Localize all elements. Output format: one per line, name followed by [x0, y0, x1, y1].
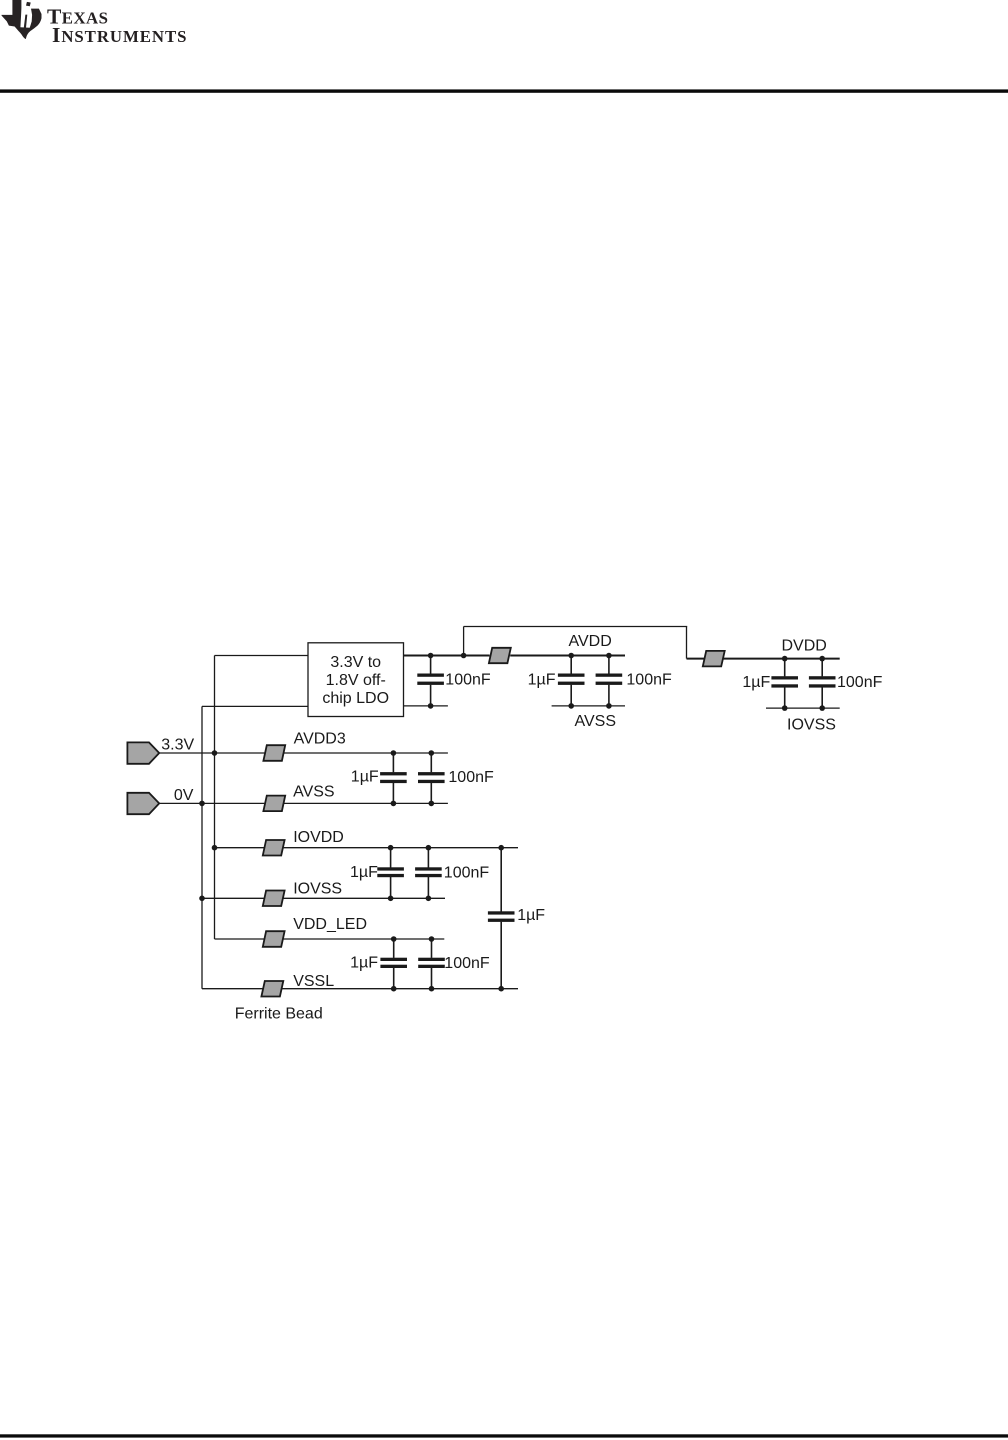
junction C1 top [428, 653, 434, 659]
capacitor C11 100nF on VDD_LED [418, 939, 445, 989]
ferrite bead FB3 AVDD3 [263, 745, 285, 761]
junction bypass tap [461, 653, 467, 659]
svg-text:VDD_LED: VDD_LED [293, 916, 367, 933]
wire FB1 to AVDD net [510, 655, 625, 657]
wire VSSL net [202, 988, 518, 990]
capacitor C3 100nF on AVDD [596, 656, 623, 706]
capacitor C6 1uF on AVDD3 [380, 753, 407, 803]
wire LDO input 3.3V [215, 655, 309, 657]
capacitor C7 100nF on AVDD3 [418, 753, 445, 803]
svg-text:100nF: 100nF [445, 671, 491, 688]
svg-text:IOVSS: IOVSS [293, 881, 342, 898]
junction C8 bottom [388, 896, 394, 902]
svg-text:Ferrite Bead: Ferrite Bead [235, 1006, 323, 1023]
wire IOVSS net [202, 897, 445, 899]
wire IOVSS return under DVDD caps [766, 707, 840, 709]
ferrite bead FB5 IOVDD [263, 840, 285, 856]
supply terminal 0V input [127, 793, 159, 814]
wire AVDD bypass top run [464, 626, 688, 628]
junction C2 top [568, 653, 574, 659]
junction C3 bottom [606, 703, 612, 709]
wire 0V row / AVSS net [159, 802, 448, 804]
junction C4 top [782, 656, 788, 662]
junction C12 bottom [498, 986, 504, 992]
ferrite bead FB2 DVDD [703, 651, 725, 667]
junction C12 top [498, 845, 504, 851]
ferrite bead FB4 AVSS [263, 796, 285, 812]
junction C6 top [391, 750, 397, 756]
ferrite bead FB7 VDD_LED [263, 931, 285, 947]
svg-text:100nF: 100nF [444, 865, 490, 882]
svg-text:DVDD: DVDD [782, 637, 827, 654]
capacitor C10 1uF on VDD_LED [380, 939, 407, 989]
junction IOVDD rail tap [212, 845, 218, 851]
footer rule [0, 1434, 1008, 1437]
svg-text:AVDD3: AVDD3 [294, 731, 346, 748]
svg-text:IOVSS: IOVSS [787, 716, 836, 733]
junction C5 bottom [819, 705, 825, 711]
svg-text:100nF: 100nF [448, 769, 494, 786]
junction 3.3V rail tap [212, 750, 218, 756]
junction C5 top [819, 656, 825, 662]
svg-text:3.3V: 3.3V [161, 736, 194, 753]
junction 0V rail tap [199, 801, 205, 807]
capacitor C9 100nF on IOVDD [415, 848, 442, 899]
wire bypass dropper to DVDD [686, 627, 688, 659]
junction C4 bottom [782, 705, 788, 711]
capacitor C5 100nF on DVDD [809, 659, 836, 709]
svg-text:1µF: 1µF [742, 674, 770, 691]
wire LDO output to FB1 [404, 655, 490, 657]
ferrite bead FB1 AVDD [489, 648, 511, 663]
junction C8 top [388, 845, 394, 851]
svg-text:1.8V off-: 1.8V off- [326, 672, 386, 689]
svg-text:1µF: 1µF [350, 864, 378, 881]
ferrite bead FB8 VSSL [261, 981, 283, 997]
junction C1 bottom [428, 703, 434, 709]
header rule [0, 89, 1008, 92]
junction C3 top [606, 653, 612, 659]
wire LDO output ground stub [404, 705, 448, 707]
svg-text:AVSS: AVSS [293, 784, 335, 801]
junction C6 bottom [391, 801, 397, 807]
svg-text:100nF: 100nF [444, 955, 490, 972]
wire LDO input return [202, 705, 308, 707]
svg-text:1µF: 1µF [517, 907, 545, 924]
wire 3.3V row / AVDD3 net [159, 752, 448, 754]
wire VDD_LED net [215, 938, 445, 940]
svg-text:100nF: 100nF [837, 674, 883, 691]
regulator U1: 3.3V to 1.8V off-chip LDO [308, 643, 404, 717]
svg-text:AVSS: AVSS [575, 713, 617, 730]
svg-text:1µF: 1µF [350, 955, 378, 972]
svg-text:IOVDD: IOVDD [293, 829, 344, 846]
svg-text:chip LDO: chip LDO [322, 690, 389, 707]
wire FB2 to DVDD net [723, 658, 840, 660]
svg-text:1µF: 1µF [528, 671, 556, 688]
junction C2 bottom [568, 703, 574, 709]
capacitor C12 1uF IOVDD to VSSL [488, 848, 515, 989]
capacitor C1 100nF at LDO output [417, 656, 444, 706]
svg-text:VSSL: VSSL [293, 973, 334, 990]
wire 3.3V rail [214, 656, 216, 940]
wire IOVDD net [215, 847, 519, 849]
wire bypass riser at C2 node [463, 627, 465, 656]
junction C11 bottom [429, 986, 435, 992]
svg-text:0V: 0V [174, 787, 194, 804]
junction C10 bottom [391, 986, 397, 992]
svg-text:100nF: 100nF [626, 671, 672, 688]
capacitor C4 1uF on DVDD [771, 659, 798, 709]
ferrite bead FB6 IOVSS [263, 891, 285, 907]
junction C10 top [391, 936, 397, 942]
junction C9 top [426, 845, 432, 851]
capacitor C2 1uF on AVDD [558, 656, 585, 706]
supply terminal 3.3V input [127, 742, 159, 763]
junction IOVSS rail tap [199, 896, 205, 902]
capacitor C8 1uF on IOVDD [377, 848, 404, 899]
wire AVSS return under AVDD caps [552, 705, 625, 707]
svg-text:3.3V to: 3.3V to [330, 654, 381, 671]
TI logo symbol [2, 0, 42, 39]
junction C11 top [429, 936, 435, 942]
svg-text:1µF: 1µF [351, 768, 379, 785]
svg-text:INSTRUMENTS: INSTRUMENTS [52, 23, 187, 47]
svg-text:AVDD: AVDD [569, 633, 612, 650]
junction C9 bottom [426, 896, 432, 902]
wire 0V rail [201, 706, 203, 988]
junction C7 bottom [429, 801, 435, 807]
junction C7 top [429, 750, 435, 756]
wire dropper to FB2 [687, 658, 705, 660]
